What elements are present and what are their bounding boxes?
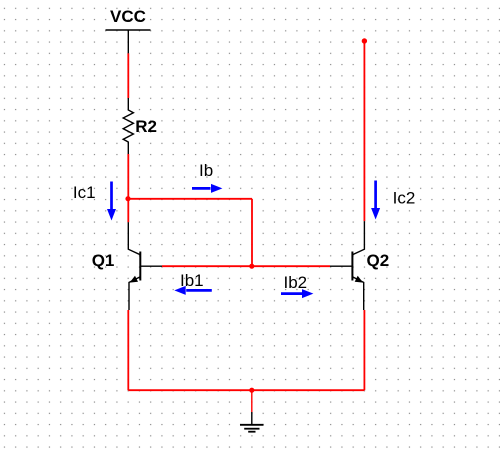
- svg-text:Q2: Q2: [367, 251, 390, 270]
- transistor Q1: [128, 222, 162, 310]
- wire Q2 collector up to port: [363, 41, 365, 221]
- node C (emitter bus / ground junction): [249, 388, 254, 393]
- node B (base net junction): [249, 264, 254, 269]
- wire base net Q1 to Q2: [162, 265, 330, 267]
- wire Q1 emitter down: [127, 310, 129, 390]
- current arrow Ib1: [174, 286, 212, 295]
- wire to ground: [251, 390, 253, 412]
- wire loop corner down to base net: [251, 199, 253, 266]
- power symbol VCC: [106, 30, 151, 53]
- wire bottom emitter bus: [128, 389, 364, 391]
- current arrow Ic2: [371, 181, 380, 220]
- svg-text:Ic2: Ic2: [393, 188, 416, 207]
- node D (Q2 collector port endpoint): [362, 38, 367, 43]
- ground: [240, 412, 264, 432]
- wire node A to loop corner (horizontal): [128, 198, 252, 200]
- wire R2 bottom to Q1 collector: [127, 154, 129, 222]
- svg-text:Ib1: Ib1: [180, 271, 204, 290]
- current arrow Ic1: [107, 182, 116, 221]
- svg-text:Q1: Q1: [92, 251, 115, 270]
- svg-text:Ib2: Ib2: [284, 273, 308, 292]
- svg-text:Ib: Ib: [199, 161, 213, 180]
- svg-text:R2: R2: [135, 117, 157, 136]
- svg-text:Ic1: Ic1: [73, 183, 96, 202]
- current arrow Ib: [192, 184, 222, 193]
- wire VCC to R2 top: [127, 53, 129, 98]
- transistor Q2: [330, 221, 364, 310]
- resistor R2: [123, 98, 133, 154]
- current arrow Ib2: [281, 289, 313, 298]
- svg-text:VCC: VCC: [110, 7, 146, 26]
- wire Q2 emitter down: [363, 310, 365, 390]
- node A (collector Q1 / base loop junction): [125, 196, 130, 201]
